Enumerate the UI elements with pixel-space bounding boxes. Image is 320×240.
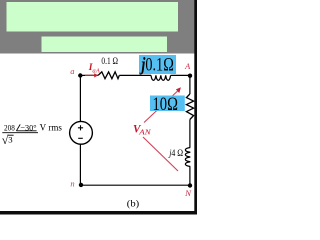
highlight box 10 ohm: [150, 96, 185, 112]
svg-text:j4 Ω: j4 Ω: [168, 149, 183, 159]
wire: bottom wire n to N: [80, 184, 190, 186]
fraction bar: [2, 132, 38, 134]
wire: right wire resistor to inductor: [189, 120, 191, 148]
voltage source plus sign: [78, 125, 83, 130]
green panel 2: [42, 37, 168, 53]
node a dot: [78, 73, 82, 77]
node N dot: [188, 183, 192, 187]
svg-text:j0.1Ω: j0.1Ω: [139, 56, 174, 76]
voltage arrow V_AN shaft toward A (under highlight box): [144, 90, 178, 122]
svg-text:A: A: [184, 62, 191, 71]
wire: left wire a down to source: [79, 75, 81, 121]
toolbar gray background: [0, 0, 197, 54]
resistor R-line 0.1 ohm (top): [98, 72, 119, 79]
node n dot: [79, 183, 83, 187]
wire: top wire inductor to A: [171, 74, 190, 76]
resistor R-load 10 ohm (right): [186, 94, 193, 120]
voltage arrow V_AN tail toward N: [143, 137, 178, 171]
svg-text:0.1 Ω: 0.1 Ω: [101, 56, 118, 67]
svg-text:10Ω: 10Ω: [153, 95, 178, 115]
current arrow I_aA: [85, 74, 96, 76]
highlight box j0.1 ohm: [139, 55, 176, 74]
bottom black border: [0, 211, 197, 215]
wire: left wire source down to n: [79, 144, 81, 185]
wire: top wire resistor to inductor: [119, 74, 151, 76]
angle symbol: [16, 124, 20, 130]
svg-text:208: 208: [4, 123, 15, 133]
svg-text:−30°: −30°: [20, 123, 37, 133]
wire: top wire a to A: [80, 74, 98, 76]
voltage source minus sign: [78, 137, 83, 139]
svg-text:(b): (b): [127, 198, 139, 209]
inductor j4 ohm (right, scallops left of wire): [185, 148, 190, 167]
wire: right wire A down to resistor: [189, 76, 191, 95]
svg-text:n: n: [70, 179, 74, 189]
right black border: [194, 0, 197, 214]
voltage arrow V_AN head near A: [176, 87, 181, 93]
svg-text:aA: aA: [92, 68, 100, 75]
inductor j0.1 ohm (top, scallops below wire): [151, 75, 171, 80]
wire: right wire inductor to N: [189, 167, 191, 186]
svg-text:V rms: V rms: [40, 123, 63, 133]
voltage source V1 circle: [70, 121, 93, 144]
node A dot: [188, 74, 192, 78]
green panel 1: [7, 2, 179, 32]
svg-text:N: N: [184, 188, 192, 198]
svg-text:a: a: [70, 66, 74, 76]
svg-text:AN: AN: [138, 128, 151, 136]
svg-text:3: 3: [8, 135, 13, 145]
